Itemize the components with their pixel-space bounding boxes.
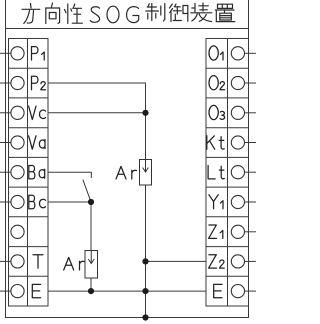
wire switch node down to coil Ar2 top [90,202,92,251]
terminal E-left circle [11,285,24,298]
wire external stub E-right [245,290,257,292]
wire Z2 row (bus to right block) [146,260,207,262]
terminal Lt circle [231,166,244,179]
title kanji 向 [46,3,60,24]
coil Ar2 (left) [85,251,98,279]
label E-right [214,284,222,297]
label O3 [209,105,225,119]
title kanji 装 [191,3,212,22]
wire external stub P1 [0,52,11,54]
terminal Va circle [11,136,24,149]
terminal Vc circle [11,106,24,119]
terminal Ba circle [11,166,24,179]
title kanji 制 [146,4,165,22]
label Lt [208,166,224,179]
label T [33,255,43,268]
terminal blank circle [11,225,24,238]
junction dot bottom/bus [142,314,148,320]
left terminal circles [11,47,245,298]
terminal O3 circle [231,106,244,119]
junction dot E/bus [142,288,148,294]
wire vertical bus lower (coil Ar1 bottom to frame bottom) [145,185,147,318]
title box bottom line [6,28,249,30]
wire Bc to switch node [48,201,91,203]
coil Ar1 (right) [140,160,152,186]
wire Vc to bus [48,112,146,114]
wire external stub O3 [245,112,257,114]
left terminal block grid [9,39,49,307]
label Ar (coil Ar2) [64,257,84,270]
terminal Z1 circle [231,225,244,238]
label P1 [32,47,45,60]
wire external stub O1 [245,52,257,54]
terminal P1 circle [11,47,24,60]
title letter S [90,7,99,23]
terminal Y1 circle [231,195,244,208]
junction dot Z2/bus [142,258,148,264]
frame border (left, bottom, right) [6,0,249,318]
label O1 [209,46,223,60]
wire external stub Z2 [245,260,257,262]
title letter G [127,7,139,23]
label O2 [209,76,225,90]
wire Ba to switch fixed contact [48,172,91,177]
wire external stub P2 [0,82,11,84]
title kanji 性 [65,4,83,24]
title kanji 御 [170,4,188,22]
junction dot Bc/switch [88,199,94,205]
wire external stub E-left [0,290,11,292]
terminal O2 circle [231,76,244,89]
right terminal block grid [206,39,228,307]
junction dot Vc/bus [142,110,148,116]
terminal P2 circle [11,76,24,89]
wire external stub Y1 [245,201,257,203]
switch blade S1 [83,180,91,202]
wire external stub O2 [245,82,257,84]
wire external stub Lt [245,171,257,173]
wire external stub Kt [245,142,257,144]
label Y1 [209,195,223,209]
wire E row (left block to right block) [48,290,206,292]
title kanji 置 [215,4,235,21]
label Z1 [209,225,223,238]
terminal T circle [11,255,24,268]
wire external stub T [0,260,11,262]
wire external stub Ba [0,171,11,173]
wire P2 to vertical bus [48,82,146,84]
wire external stub Va [0,142,11,144]
terminal Z2 circle [231,255,244,268]
terminal E-right circle [231,285,244,298]
label Kt [207,136,224,149]
label Ba [29,166,45,179]
label E-left [32,284,40,297]
junction dot E/coil Ar2 [88,288,94,294]
label Vc [29,106,46,119]
terminal Kt circle [231,136,244,149]
wire external stub Bc [0,201,11,203]
label Ar (coil Ar1) [116,166,137,179]
wire coil Ar2 bottom to E wire [90,278,92,291]
label Z2 [209,255,225,268]
terminal Bc circle [11,195,24,208]
wire external stub Vc [0,112,11,114]
label P2 [32,76,46,89]
title kanji 方 [22,4,40,24]
title letter O [107,6,119,23]
terminal O1 circle [231,47,244,60]
label Bc [29,195,46,208]
label Va [29,136,45,149]
wire vertical bus upper (P2 corner down to coil Ar1 top) [145,83,147,160]
wire external stub Z1 [245,231,257,233]
